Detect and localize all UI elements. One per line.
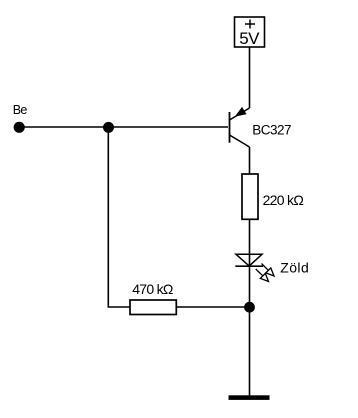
transistor Q1 emitter — [230, 108, 250, 120]
wire base — [19, 126, 228, 128]
LED D1 triangle — [236, 254, 262, 266]
svg-text:5V: 5V — [239, 29, 260, 48]
resistor R1 220k — [242, 174, 258, 219]
svg-text:220 kΩ: 220 kΩ — [263, 192, 304, 208]
svg-text:Be: Be — [13, 103, 28, 117]
ground symbol — [229, 395, 270, 400]
svg-text:BC327: BC327 — [252, 123, 291, 138]
svg-text:470 kΩ: 470 kΩ — [132, 281, 173, 297]
wire from supply to emitter — [249, 47, 251, 108]
svg-text:Zöld: Zöld — [280, 260, 309, 276]
node dot B — [244, 302, 255, 313]
wire LED to ground through node B — [249, 266, 251, 396]
transistor Q1 collector — [230, 135, 250, 147]
LED emission arrow 1 — [262, 264, 275, 277]
transistor Q1 emitter arrow (PNP) — [236, 108, 246, 116]
junction dot A — [103, 122, 114, 133]
resistor R2 470k — [130, 300, 176, 315]
wire resistor R2 to node B — [176, 306, 249, 308]
plus sign of power supply — [245, 20, 255, 29]
LED D1 cathode bar — [235, 265, 263, 267]
wire resistor R1 to LED — [249, 219, 251, 266]
power supply box U1 — [235, 17, 265, 47]
transistor Q1 base bar — [229, 112, 231, 143]
node Be terminal dot — [14, 122, 25, 133]
LED emission arrow 2 — [256, 269, 269, 282]
wire collector down — [249, 147, 251, 174]
wire left branch down — [108, 127, 130, 307]
